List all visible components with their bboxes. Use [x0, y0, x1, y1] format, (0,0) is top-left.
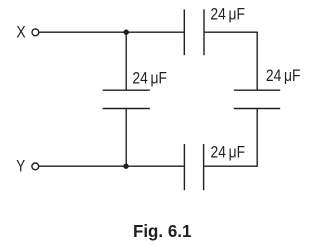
svg-text:24 μF: 24 μF	[266, 67, 301, 85]
svg-text:Fig. 6.1: Fig. 6.1	[133, 221, 192, 241]
svg-text:24 μF: 24 μF	[211, 144, 246, 162]
svg-text:24 μF: 24 μF	[210, 6, 245, 24]
svg-text:24 μF: 24 μF	[132, 69, 167, 87]
svg-text:Y: Y	[16, 157, 25, 176]
svg-text:X: X	[16, 22, 25, 41]
